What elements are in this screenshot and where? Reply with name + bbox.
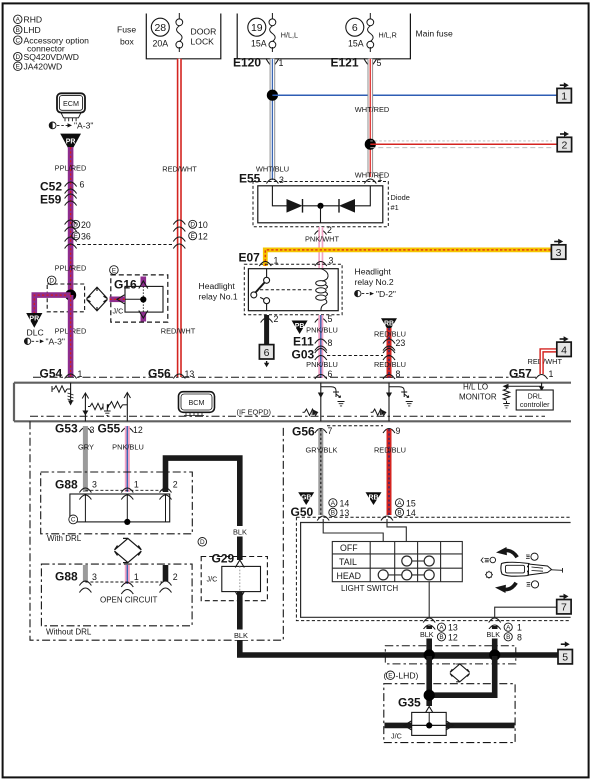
svg-text:DLC: DLC [27, 328, 44, 338]
svg-text:2: 2 [173, 480, 178, 490]
svg-text:BLK: BLK [420, 630, 434, 639]
svg-text:Headlight: Headlight [199, 281, 236, 291]
svg-text:relay No.1: relay No.1 [199, 292, 238, 302]
accessory connector D dashed box [47, 276, 84, 312]
svg-text:Diode: Diode [391, 193, 410, 202]
connector E120 pin 1 [233, 56, 284, 70]
svg-text:box: box [120, 37, 135, 47]
svg-text:1: 1 [134, 480, 139, 490]
wire marker triangle PR [60, 134, 81, 153]
svg-text:C52: C52 [40, 180, 62, 194]
svg-text:12: 12 [448, 632, 458, 642]
wire GRY from G53 to G88 [83, 426, 88, 492]
svg-text:PB: PB [295, 323, 305, 330]
output box 3 [551, 239, 565, 260]
svg-text:BLK: BLK [233, 528, 247, 537]
relay pin 5 chevron [315, 314, 333, 324]
wire to output 2 (red horizontal with white stripe dashes) [370, 141, 557, 148]
BCM internal circuit at G54 input [52, 383, 74, 406]
legend note E JA420WD [14, 61, 63, 71]
svg-text:D: D [15, 54, 20, 61]
G16 internal node and links [125, 286, 146, 312]
svg-text:RHD: RHD [24, 15, 43, 25]
svg-text:D: D [73, 222, 78, 229]
svg-text:relay No.2: relay No.2 [355, 277, 394, 287]
wire marker triangle RB [381, 318, 397, 332]
svg-text:E: E [112, 267, 116, 274]
junction nodes on ground bus [424, 649, 501, 660]
wire PNK/BLU from G55 to G88 [125, 426, 130, 492]
svg-text:E11: E11 [293, 335, 314, 349]
junction connector G35 (J/C) dashed box [384, 684, 515, 743]
connector chevrons pin 23 [383, 338, 405, 360]
wire PNK/WHT from E55 to relay coil [318, 227, 323, 269]
purple stub wire G16 bottom [139, 311, 148, 322]
switch contacts HEAD row [378, 570, 434, 580]
svg-text:G88: G88 [55, 478, 78, 492]
connector G54 pin 1 [40, 367, 83, 381]
wire RED/BLU from G56-9 to G50 [387, 429, 392, 515]
svg-text:RED/WHT: RED/WHT [528, 357, 563, 366]
svg-text:13: 13 [340, 508, 350, 518]
svg-text:3: 3 [92, 572, 97, 582]
svg-text:"D-2": "D-2" [376, 289, 396, 299]
svg-text:1: 1 [561, 91, 567, 103]
svg-text:10: 10 [198, 220, 208, 230]
relay pin 2 to box 6 (black wire) [261, 314, 279, 345]
wire WHT/BLU from fuse 19 (vertical, gray with blue core) [270, 59, 276, 180]
svg-text:9: 9 [396, 426, 401, 436]
svg-text:RED/BLU: RED/BLU [374, 360, 406, 369]
svg-text:E55: E55 [239, 172, 261, 186]
svg-text:A: A [331, 500, 336, 507]
svg-text:Fuse: Fuse [117, 25, 136, 35]
svg-text:J/C: J/C [391, 732, 402, 741]
internal wire from pin B to switch column 3 [387, 519, 406, 542]
svg-text:E: E [16, 64, 20, 71]
svg-text:BLK: BLK [234, 631, 248, 640]
wire RED/BLU from relay No.2 to BCM [387, 328, 392, 378]
svg-text:12: 12 [198, 232, 208, 242]
svg-text:B: B [439, 634, 443, 641]
wire label BLK (above G29) [231, 526, 249, 537]
output box 6 [259, 345, 273, 368]
G35 J/C box [385, 707, 515, 741]
svg-text:TAIL: TAIL [339, 557, 357, 567]
svg-text:(IF EQPD): (IF EQPD) [237, 408, 272, 417]
svg-text:4: 4 [561, 344, 567, 356]
svg-text:6: 6 [352, 22, 358, 34]
connector chevrons D20/E36 on purple wire [65, 220, 91, 249]
wire label BLK (left stub) [419, 629, 434, 639]
svg-text:20A: 20A [152, 39, 168, 49]
svg-text:23: 23 [396, 338, 406, 348]
wire WHT/RED from fuse 6 (vertical) [367, 59, 373, 177]
wire PNK/BLU stub into G88 (Without DRL) [125, 565, 130, 584]
svg-text:OPEN CIRCUIT: OPEN CIRCUIT [100, 596, 157, 605]
svg-text:BCM: BCM [189, 398, 205, 407]
steering stalk illustration [481, 547, 563, 593]
light switch table [332, 542, 462, 582]
svg-text:PNK/BLU: PNK/BLU [306, 325, 338, 334]
wire PPL/RED vertical (purple) [68, 147, 74, 295]
svg-text:LOCK: LOCK [191, 36, 215, 46]
junction node on WHT/BLU [267, 90, 278, 101]
svg-text:1: 1 [517, 623, 522, 633]
svg-text:G56: G56 [148, 367, 171, 381]
svg-text:RB: RB [384, 321, 394, 328]
svg-text:"A-3": "A-3" [74, 121, 93, 131]
svg-text:E: E [388, 673, 392, 680]
main fuse box outline [237, 14, 410, 59]
svg-text:5: 5 [328, 314, 333, 324]
connector G56 pin 9 chevron [383, 426, 401, 436]
svg-text:E120: E120 [233, 56, 261, 70]
fuse F28 20A DOOR LOCK [151, 13, 216, 52]
junction connector G29 (J/C) [198, 538, 267, 601]
output box 4 [557, 336, 571, 356]
svg-text:20: 20 [81, 220, 91, 230]
wire from output box 7 into switch [495, 607, 558, 617]
light switch dashed housing [296, 517, 571, 620]
svg-text:With DRL: With DRL [47, 534, 82, 543]
fuse box (door lock) outline [146, 14, 221, 59]
headlight relay No.2 reference [355, 267, 396, 299]
svg-text:3: 3 [92, 480, 97, 490]
svg-text:"A-3": "A-3" [46, 337, 65, 347]
svg-text:E: E [74, 233, 78, 240]
svg-text:2: 2 [173, 572, 178, 582]
DLC reference "A-3" [24, 328, 65, 347]
svg-text:13: 13 [448, 623, 458, 633]
svg-text:PR: PR [66, 138, 76, 145]
fuse F19 15A H/L,L [248, 13, 298, 52]
svg-text:G57: G57 [509, 367, 532, 381]
svg-text:3: 3 [279, 175, 284, 185]
wire RED/WHT from fuse 28 (vertical) [177, 59, 182, 377]
svg-text:E59: E59 [40, 193, 62, 207]
BCM inner box [179, 392, 215, 416]
connector G56 pin 13 [148, 367, 194, 381]
ground bus dashed box [385, 646, 516, 664]
wire marker triangle PR (DLC) [26, 313, 42, 328]
svg-text:3: 3 [556, 247, 562, 259]
svg-text:HEAD: HEAD [337, 571, 361, 581]
svg-text:A: A [506, 625, 511, 632]
connector G56 pin 7 [292, 425, 333, 439]
svg-text:G53: G53 [55, 422, 78, 436]
svg-text:SQ420VD/WD: SQ420VD/WD [24, 52, 79, 62]
svg-text:2: 2 [327, 225, 332, 235]
dashed link G56 pins 7-9 [327, 425, 383, 427]
pin label A15 B14 [395, 498, 415, 518]
BCM internal circuit at G55 output [104, 393, 131, 422]
svg-text:LIGHT SWITCH: LIGHT SWITCH [341, 584, 398, 593]
svg-text:B: B [16, 27, 20, 34]
svg-text:WHT/RED: WHT/RED [355, 105, 390, 114]
svg-text:15A: 15A [348, 39, 364, 49]
alternative symbol diamond (near G35) [450, 664, 470, 682]
svg-text:19: 19 [251, 22, 263, 34]
dash-dot line inside band [30, 415, 545, 417]
wire BLK from G88 pin2 to G29 [166, 458, 240, 560]
svg-text:6: 6 [80, 180, 85, 190]
wire BLK right branch into G35 [429, 656, 495, 695]
svg-text:RB: RB [368, 494, 378, 501]
wire marker triangle PB [292, 321, 308, 335]
svg-text:Headlight: Headlight [355, 267, 392, 277]
text E-LHD [384, 671, 419, 681]
svg-text:6: 6 [264, 347, 270, 359]
BCM internal circuit at RED/BLU input [371, 383, 413, 422]
output box 1 [557, 82, 571, 102]
svg-text:controller: controller [520, 400, 550, 409]
H/L LO MONITOR arrow and resistor [459, 383, 542, 408]
legend note B LHD [14, 25, 41, 35]
svg-text:5: 5 [562, 652, 568, 664]
svg-text:B: B [331, 510, 335, 517]
svg-text:LHD: LHD [24, 25, 41, 35]
svg-text:8: 8 [517, 632, 522, 642]
svg-text:E07: E07 [239, 251, 261, 265]
svg-text:C: C [15, 37, 20, 44]
svg-text:DOOR: DOOR [191, 26, 217, 36]
svg-text:#1: #1 [391, 203, 399, 212]
fuse box label [117, 25, 136, 47]
harness dash line above BCM [33, 376, 537, 378]
connector G57 pin 1 and wire RED/WHT to output 4 [509, 350, 562, 380]
light switch solid housing [301, 523, 571, 618]
junction node on purple wire [65, 290, 76, 301]
svg-text:RED/WHT: RED/WHT [162, 165, 197, 174]
svg-text:PNK/BLU: PNK/BLU [306, 360, 338, 369]
variant area dashed box [30, 421, 283, 640]
svg-text:J/C: J/C [113, 307, 124, 316]
svg-text:GRY/BLK: GRY/BLK [306, 446, 338, 455]
dashed link between purple and red wire connectors [77, 244, 173, 246]
BCM internal circuit at G53 output [82, 393, 103, 421]
svg-text:3: 3 [90, 425, 95, 435]
wire PPL/RED to G54 [68, 295, 74, 377]
connector G88 (Without DRL) OPEN CIRCUIT [41, 564, 192, 626]
alternative symbol diamond (horizontal) [87, 287, 108, 311]
svg-text:1: 1 [279, 58, 284, 68]
connector E11 G03 pin 8 [292, 335, 333, 362]
svg-text:G29: G29 [212, 552, 235, 566]
G50 output pin A1 B8 [489, 618, 522, 642]
G50 output pin A13 B12 [423, 618, 458, 642]
connector G53 pin 3 [55, 422, 95, 436]
dashed link E11/G03 to relay2 wire [327, 355, 383, 357]
svg-text:PNK/BLU: PNK/BLU [112, 443, 144, 452]
wire to output 1 (blue horizontal) [272, 94, 557, 96]
wire GRY/BLK from G56-7 to G50 [318, 429, 323, 515]
ECM module symbol [57, 93, 85, 121]
connector C52 E59 pin 6 [40, 180, 85, 207]
purple stub wire into G16 left [110, 295, 126, 304]
switch output wire to pin A13/B12 [428, 582, 430, 618]
BCM module band [14, 383, 571, 422]
svg-text:H/L LO: H/L LO [463, 383, 488, 392]
svg-text:OFF: OFF [340, 543, 358, 553]
svg-text:A: A [16, 17, 21, 24]
svg-text:2: 2 [561, 140, 567, 152]
svg-text:PPL/RED: PPL/RED [55, 164, 87, 173]
ECM view reference "A-3" [49, 121, 93, 131]
svg-text:H/L,L: H/L,L [281, 31, 298, 40]
DRL controller box [516, 383, 553, 410]
connector E121 pin 5 [331, 56, 382, 70]
svg-text:Main fuse: Main fuse [416, 29, 453, 39]
connector G88 (With DRL) [41, 472, 193, 534]
connector G56 pin 8 chevron [383, 369, 401, 379]
svg-text:D: D [200, 539, 205, 546]
wire BLK from G29 to ground bus [240, 592, 560, 655]
svg-text:28: 28 [154, 22, 166, 34]
G50 pin chevrons [317, 516, 393, 521]
switch contacts TAIL row [402, 556, 434, 566]
wire BLK stubs to ground bus [429, 626, 495, 656]
wire BLK from bus junction into G35 [426, 656, 432, 706]
BCM internal circuit at PNK/BLU input [303, 383, 345, 422]
svg-text:A: A [397, 500, 402, 507]
svg-text:PR: PR [29, 316, 39, 323]
svg-text:8: 8 [328, 338, 333, 348]
internal wire from pin A to switch column 2 [323, 519, 383, 542]
svg-text:-LHD): -LHD) [396, 671, 419, 681]
svg-text:36: 36 [81, 232, 91, 242]
svg-text:WHT/RED: WHT/RED [355, 171, 390, 180]
headlight relay No.1 E07 [199, 251, 343, 315]
svg-text:14: 14 [340, 498, 350, 508]
svg-text:D: D [190, 222, 195, 229]
svg-text:G56: G56 [292, 425, 315, 439]
svg-text:GRY: GRY [78, 443, 94, 452]
svg-text:1: 1 [134, 572, 139, 582]
svg-text:7: 7 [561, 602, 567, 614]
wire label BLK (right stub) [486, 629, 501, 639]
svg-text:GB: GB [301, 494, 312, 501]
svg-text:DRL: DRL [528, 391, 542, 400]
svg-text:WHT/BLU: WHT/BLU [256, 165, 289, 174]
svg-text:PPL/RED: PPL/RED [55, 264, 87, 273]
svg-text:H/L,R: H/L,R [379, 31, 397, 40]
svg-text:B: B [506, 634, 510, 641]
svg-text:E121: E121 [331, 56, 359, 70]
svg-text:C: C [71, 517, 76, 524]
wire marker triangle RB [366, 492, 382, 505]
wire label BLK (below G29) [232, 630, 250, 641]
connector G55 pin 12 [98, 422, 143, 436]
fuse F6 15A H/L,R [346, 13, 397, 52]
output box 2 [557, 131, 571, 152]
svg-text:12: 12 [133, 425, 143, 435]
svg-text:JA420WD: JA420WD [24, 61, 63, 71]
svg-text:B: B [397, 510, 401, 517]
wire yellow to output 3 [265, 250, 551, 266]
svg-text:RED/WHT: RED/WHT [161, 327, 196, 336]
svg-text:7: 7 [328, 426, 333, 436]
svg-text:G35: G35 [398, 696, 421, 710]
svg-text:G54: G54 [40, 367, 63, 381]
output box 5 [558, 641, 572, 664]
pin label A14 B13 [329, 498, 350, 518]
purple branch wire to DLC [34, 295, 70, 314]
svg-text:PNK/WHT: PNK/WHT [305, 235, 340, 244]
svg-text:G55: G55 [98, 422, 121, 436]
alternative symbol diamond (vertical) [115, 538, 142, 562]
output box 7 [557, 594, 571, 614]
purple stub wire G16 top [139, 277, 148, 289]
junction node on WHT/RED [365, 139, 376, 150]
junction connector G16 (J/C) [110, 266, 168, 322]
svg-text:A: A [439, 625, 444, 632]
svg-text:14: 14 [406, 508, 416, 518]
junction node G35 [424, 690, 435, 701]
diode module E55 (Diode #1) [239, 172, 410, 236]
svg-text:15: 15 [406, 498, 416, 508]
svg-text:5: 5 [377, 58, 382, 68]
svg-text:RED/BLU: RED/BLU [374, 446, 406, 455]
svg-text:15A: 15A [251, 39, 267, 49]
svg-text:J/C: J/C [207, 575, 218, 584]
connector chevrons D10/E12 on red wire [173, 220, 208, 249]
connector G56 pin 6 chevron [315, 369, 333, 379]
svg-text:Without DRL: Without DRL [46, 628, 92, 637]
svg-text:E: E [191, 233, 195, 240]
legend note C Accessory option connector [14, 35, 90, 53]
legend note D SQ420VD/WD [14, 52, 79, 62]
legend note A RHD [14, 15, 43, 25]
svg-text:MONITOR: MONITOR [459, 393, 497, 402]
wire marker triangle GB [298, 492, 314, 505]
svg-text:1: 1 [549, 369, 554, 379]
svg-text:BLK: BLK [487, 630, 501, 639]
svg-text:ECM: ECM [63, 99, 79, 108]
svg-text:G88: G88 [55, 570, 78, 584]
svg-text:2: 2 [274, 314, 279, 324]
wire PNK/BLU from relay to BCM [318, 315, 323, 378]
